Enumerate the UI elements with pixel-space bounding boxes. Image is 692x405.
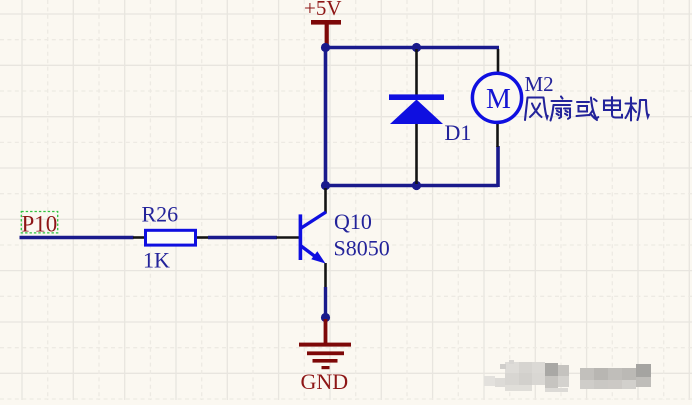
diode D1: [389, 49, 444, 184]
wire middle rail collector node to motor branch: [324, 184, 498, 188]
svg-text:M2: M2: [525, 72, 554, 96]
label 风扇或电机 (fan or motor): [525, 98, 548, 121]
svg-text:D1: D1: [445, 120, 472, 145]
resistor R26: [133, 230, 209, 245]
watermark (blurred mosaic): [484, 360, 651, 392]
transistor Q10: [277, 188, 327, 288]
wire top rail +5V to motor: [324, 46, 499, 50]
wire resistor to base: [208, 236, 277, 239]
svg-text:1K: 1K: [143, 247, 170, 272]
junction node at collector rail left: [321, 181, 330, 190]
svg-text:GND: GND: [301, 369, 349, 394]
svg-text:S8050: S8050: [334, 235, 390, 260]
svg-text:Q10: Q10: [334, 209, 372, 234]
svg-text:P10: P10: [22, 212, 58, 237]
junction node at emitter / ground: [321, 313, 330, 322]
svg-text:M: M: [486, 84, 511, 115]
node P10: [21, 212, 57, 237]
power +5V: [304, 0, 342, 47]
wire P10 to resistor: [20, 236, 134, 239]
motor M2: [472, 49, 521, 147]
junction node at +5V rail / diode cathode: [412, 43, 421, 52]
ground: [299, 319, 351, 369]
junction node at +5V rail left: [321, 43, 330, 52]
svg-text:R26: R26: [142, 202, 179, 227]
wire emitter to ground node: [324, 287, 327, 318]
svg-text:+5V: +5V: [304, 0, 342, 20]
wire motor bottom lead vertical: [496, 146, 500, 187]
junction node at collector rail / diode anode: [412, 181, 421, 190]
wire left rail down to collector node: [324, 46, 328, 186]
